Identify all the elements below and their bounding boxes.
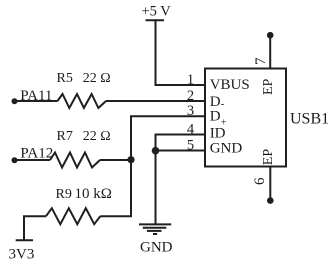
svg-text:R7: R7 [57, 129, 73, 144]
wire pin7 stub [269, 38, 271, 69]
svg-text:ID: ID [210, 126, 226, 142]
svg-text:22 Ω: 22 Ω [83, 71, 111, 86]
svg-text:10 kΩ: 10 kΩ [75, 186, 112, 202]
resistor R7 [50, 153, 100, 168]
wire R9 to 3V3 [24, 216, 46, 239]
svg-text:-: - [221, 98, 225, 110]
svg-text:3: 3 [187, 103, 194, 119]
svg-text:2: 2 [187, 88, 194, 104]
svg-text:5: 5 [187, 137, 194, 153]
wire pin4 ID down to pin5 net [156, 135, 206, 151]
node PA11 terminal dot [12, 98, 18, 104]
svg-text:PA12: PA12 [20, 145, 53, 161]
node PA12 terminal dot [12, 157, 18, 163]
pin7 terminal dot [267, 32, 274, 39]
svg-text:R9: R9 [56, 187, 72, 202]
svg-text:GND: GND [210, 141, 243, 157]
node A junction dot [127, 156, 134, 163]
svg-text:GND: GND [140, 240, 173, 256]
svg-text:R5: R5 [57, 71, 73, 86]
wire +5V vertical to pin1 corner [156, 21, 206, 85]
wire node A up to pin3 [131, 116, 205, 160]
op-amp U1 IC body USB1 [205, 69, 286, 167]
pin6 terminal dot [267, 197, 274, 204]
svg-text:4: 4 [187, 121, 195, 137]
svg-text:6: 6 [252, 177, 268, 185]
wire pin5 GND to ground [156, 151, 206, 224]
junction dot pin4/pin5 [152, 147, 160, 155]
wire PA12 to R7 [15, 159, 51, 161]
resistor R9 [46, 208, 100, 224]
ground symbol [139, 223, 171, 225]
svg-text:VBUS: VBUS [210, 77, 250, 93]
svg-text:+5 V: +5 V [142, 3, 172, 19]
wire PA11 to R5 [15, 100, 58, 102]
wire node A down to R9 [100, 160, 131, 216]
svg-text:22 Ω: 22 Ω [83, 129, 111, 144]
svg-text:USB1: USB1 [290, 111, 329, 128]
svg-text:1: 1 [187, 72, 194, 88]
power +5V bar [146, 19, 165, 21]
power 3V3 bar [16, 239, 33, 241]
svg-text:EP: EP [261, 149, 276, 166]
svg-text:EP: EP [261, 78, 276, 95]
svg-text:7: 7 [253, 57, 269, 65]
wire R7 to node A [100, 159, 131, 161]
resistor R5 [58, 94, 107, 108]
svg-text:3V3: 3V3 [9, 246, 35, 262]
wire R5 to pin2 [106, 100, 205, 102]
svg-text:D: D [210, 109, 221, 125]
wire pin6 stub [269, 167, 271, 198]
svg-text:PA11: PA11 [20, 88, 52, 104]
